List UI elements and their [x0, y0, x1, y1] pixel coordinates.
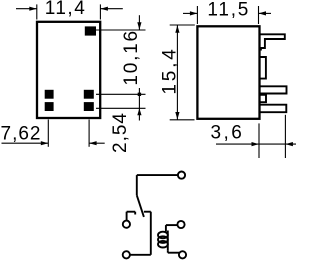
svg-text:11,4: 11,4	[45, 0, 87, 19]
svg-text:11,5: 11,5	[207, 0, 250, 21]
svg-text:15,4: 15,4	[159, 46, 180, 94]
svg-text:2,54: 2,54	[110, 112, 131, 153]
svg-text:3,6: 3,6	[210, 122, 244, 143]
svg-text:10,16: 10,16	[121, 29, 142, 86]
svg-text:7,62: 7,62	[1, 124, 42, 145]
